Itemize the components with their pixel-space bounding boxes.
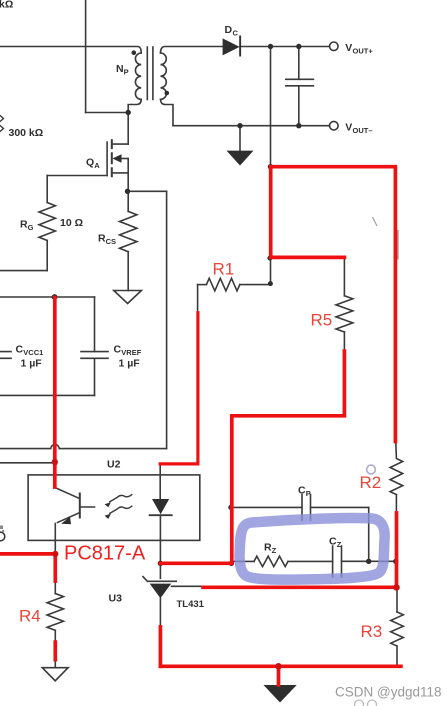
- svg-text:kΩ: kΩ: [0, 0, 13, 11]
- wire VREF rail: [0, 296, 95, 298]
- wire red: LED cathode to Rz node: [160, 561, 231, 565]
- svg-text:1 µF: 1 µF: [21, 358, 43, 370]
- left edge tiny glyphs: [0, 526, 3, 530]
- red junction dots: [52, 459, 400, 670]
- svg-text:C: C: [233, 29, 239, 38]
- wire sense vertical from Vout+: [270, 47, 272, 167]
- wire VREF bottom rail: [0, 394, 95, 396]
- resistor R4 leads: [54, 581, 56, 594]
- resistor R1: [198, 284, 207, 286]
- svg-text:R3: R3: [361, 622, 383, 641]
- wire red: down to R5 branch: [271, 167, 345, 258]
- svg-text:U3: U3: [109, 593, 123, 605]
- wire top rail to primary: [0, 47, 141, 54]
- capacitor C_Z: [333, 546, 342, 577]
- svg-text:U2: U2: [107, 459, 121, 471]
- wire source node to CS: [128, 190, 167, 192]
- svg-text:Z: Z: [272, 546, 277, 555]
- svg-text:VCC1: VCC1: [23, 348, 43, 357]
- ground filled triangle (bottom): [264, 685, 297, 703]
- svg-text:C: C: [298, 485, 306, 497]
- svg-text:R5: R5: [311, 311, 333, 330]
- wire red: bottom ground rail: [160, 664, 401, 668]
- capacitor C_OUT leads: [298, 47, 300, 126]
- svg-text:C: C: [16, 344, 24, 356]
- svg-text:V: V: [345, 121, 352, 133]
- resistor R_G: [46, 176, 48, 203]
- svg-text:R4: R4: [19, 607, 41, 626]
- wire red: R5 bottom to Rz node: [232, 351, 345, 563]
- wire red: R4 lower segment: [53, 642, 57, 660]
- purple highlight blob: [240, 518, 385, 580]
- opto LED leads: [159, 465, 161, 500]
- wire drain vertical: [127, 113, 129, 145]
- wire red: ground stem: [277, 666, 281, 685]
- wire red: opto emitter to R4: [0, 554, 55, 581]
- wire secondary top lead: [161, 47, 223, 54]
- wire FB line to opto collector: [0, 462, 54, 464]
- svg-text:D: D: [225, 24, 233, 36]
- ground filled triangle (secondary): [227, 151, 254, 166]
- svg-text:G: G: [28, 223, 34, 232]
- TL431 triangle: [150, 584, 172, 599]
- wire red: REF line: [203, 585, 397, 589]
- purple ring doodle above R2: [367, 465, 376, 474]
- red annotation wires: [0, 167, 401, 685]
- resistor R_Z: [232, 560, 254, 562]
- svg-text:VREF: VREF: [121, 348, 141, 357]
- capacitor C_VCC1 plates: [0, 352, 11, 359]
- opto emitter arrowhead: [61, 517, 71, 524]
- opto LED diode: [152, 499, 169, 514]
- wire red: VREF dot to opto collector: [53, 298, 57, 488]
- svg-text:Q: Q: [86, 157, 94, 169]
- filled black symbols: [52, 36, 399, 703]
- wire red: TL431 anode: [159, 627, 163, 666]
- svg-text:A: A: [94, 161, 100, 170]
- transistor Q_A MOSFET: [106, 142, 108, 175]
- svg-text:TL431: TL431: [177, 599, 205, 610]
- svg-text:C: C: [114, 344, 122, 356]
- wire stub to R1 node: [270, 258, 272, 284]
- 300k resistor fragment at left edge: [0, 116, 4, 132]
- MOSFET body arrow: [112, 154, 121, 163]
- svg-text:10 Ω: 10 Ω: [60, 217, 83, 229]
- wire red: R1 lead down to LED anode: [160, 313, 198, 464]
- faint circles bottom: [355, 700, 364, 706]
- wire Rg bottom to left: [0, 270, 47, 272]
- svg-text:N: N: [116, 63, 124, 75]
- wire red: sense loop top to R2: [271, 167, 396, 442]
- wire gate: [47, 175, 107, 177]
- wire red: R2 bottom to REF node: [395, 513, 399, 587]
- svg-text:V: V: [345, 42, 352, 54]
- resistor R_CS: [127, 191, 129, 211]
- junction dots: [132, 50, 137, 55]
- svg-text:Z: Z: [337, 540, 342, 549]
- TL431 U3: [159, 563, 161, 578]
- opto arrow heads: [105, 502, 111, 507]
- left edge terminal circle: [0, 532, 5, 541]
- resistor R2: [390, 442, 403, 495]
- diode D_C: [223, 38, 240, 55]
- svg-text:OUT+: OUT+: [353, 47, 374, 56]
- svg-text:CSDN @ydgd118: CSDN @ydgd118: [335, 685, 442, 700]
- resistor R5: [343, 257, 345, 295]
- wire secondary bottom lead: [161, 99, 174, 125]
- transformer secondary winding: [161, 53, 167, 99]
- svg-text:C: C: [329, 536, 337, 548]
- U2 optocoupler box: [28, 475, 200, 541]
- terminal V_OUT-: [330, 121, 339, 130]
- svg-text:P: P: [124, 68, 129, 77]
- ground filled under Vout- rail: [239, 126, 241, 151]
- svg-text:1 µF: 1 µF: [119, 358, 141, 370]
- capacitor C_VREF: [94, 297, 96, 352]
- wire diode cathode to Vout+: [240, 46, 330, 48]
- svg-text:R1: R1: [213, 260, 235, 279]
- transformer T1 primary winding Np: [135, 53, 141, 99]
- resistor R3: [396, 587, 398, 612]
- transformer core: [147, 47, 153, 100]
- wire Vout- rail: [173, 125, 330, 127]
- gray remnant line near R2 top: [397, 230, 399, 260]
- wire primary bottom lead: [128, 99, 141, 112]
- wire clamp vertical: [85, 0, 87, 113]
- wire CS sense line down and left with hop: [166, 191, 168, 448]
- svg-text:PC817-A: PC817-A: [64, 543, 146, 565]
- svg-text:R2: R2: [360, 473, 382, 492]
- svg-text:P: P: [306, 489, 311, 498]
- opto light arrows: [110, 495, 132, 502]
- svg-text:CS: CS: [106, 237, 116, 246]
- ground open triangle under Rcs: [114, 291, 142, 304]
- stray pen tick: [373, 217, 378, 226]
- wire clamp to drain node: [86, 112, 129, 114]
- opto phototransistor: [55, 475, 80, 499]
- svg-text:OUT–: OUT–: [353, 126, 373, 135]
- capacitor C_P branch: [232, 506, 302, 508]
- svg-text:300 kΩ: 300 kΩ: [9, 127, 44, 139]
- terminal V_OUT+: [330, 42, 339, 51]
- ground open triangle under R4: [42, 668, 68, 681]
